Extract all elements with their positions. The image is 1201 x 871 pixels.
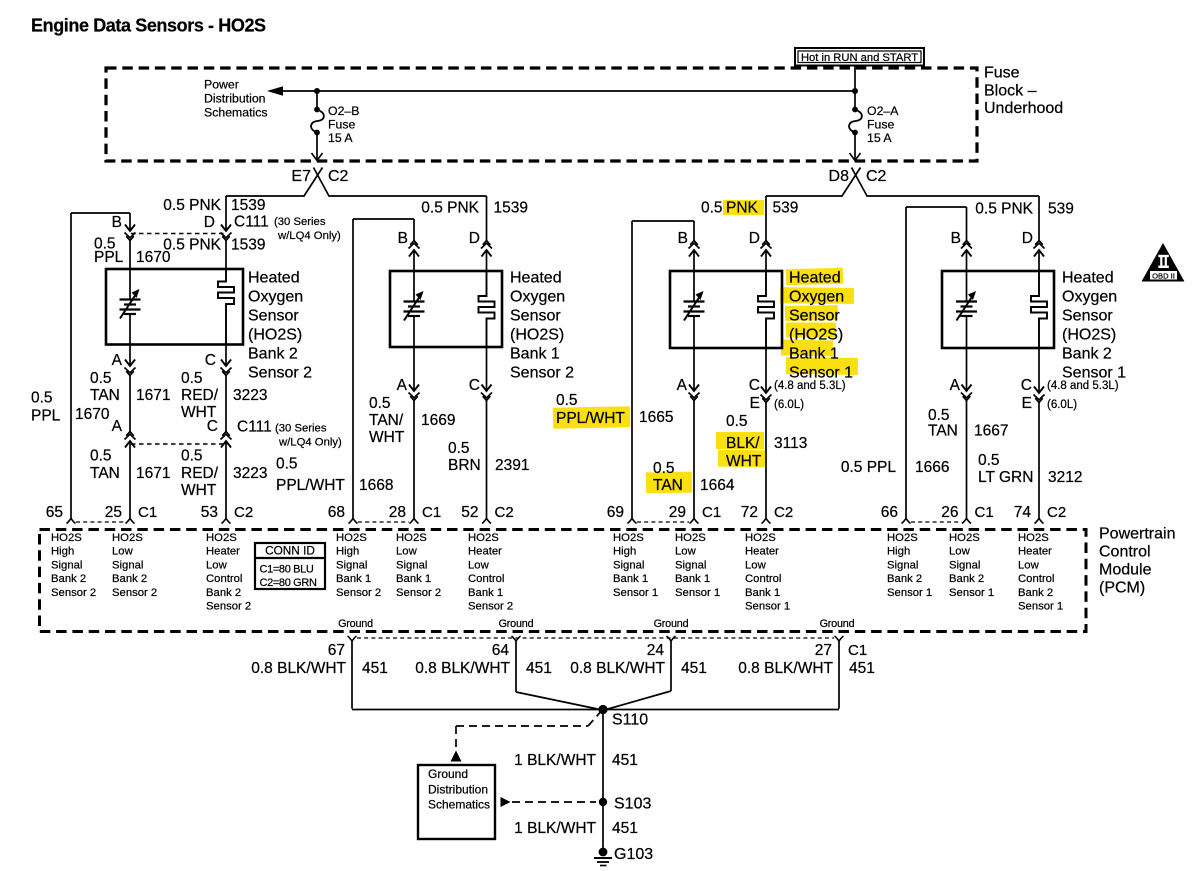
arrow to power distribution schematics xyxy=(267,86,283,96)
pin 72 bump xyxy=(762,519,771,524)
svg-text:72: 72 xyxy=(741,504,758,521)
sensor element B2S1 xyxy=(966,271,968,302)
svg-text:0.8 BLK/WHT: 0.8 BLK/WHT xyxy=(738,660,833,677)
connector terminal A B1S1 xyxy=(689,385,699,392)
svg-text:B: B xyxy=(678,230,688,247)
svg-text:0.5 PPL: 0.5 PPL xyxy=(841,459,897,476)
svg-text:C1=80 BLU: C1=80 BLU xyxy=(260,564,314,576)
svg-text:C1: C1 xyxy=(422,504,441,521)
svg-text:Sensor 1: Sensor 1 xyxy=(949,587,994,599)
connector D8 C2 crossover xyxy=(852,168,868,197)
svg-text:0.8 BLK/WHT: 0.8 BLK/WHT xyxy=(570,660,665,677)
svg-text:C: C xyxy=(207,418,218,435)
svg-text:B: B xyxy=(951,230,961,247)
ground G103 xyxy=(599,848,608,857)
svg-text:D: D xyxy=(204,214,215,231)
svg-text:HO2S: HO2S xyxy=(396,532,427,544)
HO2S Bank 1 Sensor 2 box xyxy=(390,271,502,347)
svg-text:PNK: PNK xyxy=(726,200,759,217)
heater element B2S2 xyxy=(218,269,234,344)
svg-text:w/LQ4 Only): w/LQ4 Only) xyxy=(278,437,342,449)
arrow right from ground distribution box xyxy=(501,797,511,807)
wire B2S2 pin65 riser xyxy=(70,213,72,519)
svg-text:A: A xyxy=(677,377,688,394)
svg-text:Ground: Ground xyxy=(820,618,855,630)
svg-text:0.5: 0.5 xyxy=(653,460,675,477)
svg-text:Fuse: Fuse xyxy=(984,65,1020,82)
wire B2S2 C upper xyxy=(225,344,227,366)
fuse O2-A 15A xyxy=(852,107,858,113)
svg-text:C2=80 GRN: C2=80 GRN xyxy=(260,577,317,589)
svg-text:OBD II: OBD II xyxy=(1152,271,1175,280)
ground pin 24 bump xyxy=(667,636,676,641)
svg-text:Signal: Signal xyxy=(887,559,918,571)
svg-text:Bank 2: Bank 2 xyxy=(887,573,922,585)
wire ground pin 67 drop xyxy=(351,641,353,709)
svg-text:Low: Low xyxy=(745,559,767,571)
wire S103 to G103 (1 BLK/WHT 451) xyxy=(602,802,604,853)
wire B2S1 A upper xyxy=(966,348,968,391)
svg-text:451: 451 xyxy=(526,660,552,677)
svg-text:S103: S103 xyxy=(614,796,651,813)
svg-text:0.8 BLK/WHT: 0.8 BLK/WHT xyxy=(415,660,510,677)
wire bus tap to fuse O2-B xyxy=(316,91,318,107)
wire B1S1 C upper xyxy=(765,348,767,393)
svg-text:(HO2S): (HO2S) xyxy=(1062,327,1116,344)
connector C1 ground dashed link xyxy=(357,637,834,639)
svg-text:Heated: Heated xyxy=(1062,270,1114,287)
wire B2S2 B loop top xyxy=(71,212,130,214)
svg-text:C2: C2 xyxy=(1047,504,1066,521)
svg-text:High: High xyxy=(887,546,910,558)
svg-text:0.5 PNK: 0.5 PNK xyxy=(421,200,479,217)
svg-text:Heater: Heater xyxy=(745,546,779,558)
splice S110 xyxy=(598,705,607,714)
svg-text:RED/: RED/ xyxy=(181,465,219,482)
svg-text:Control: Control xyxy=(1099,544,1151,561)
svg-text:Sensor 2: Sensor 2 xyxy=(51,587,96,599)
svg-text:74: 74 xyxy=(1014,504,1032,521)
svg-text:29: 29 xyxy=(669,504,686,521)
svg-text:(30 Series: (30 Series xyxy=(275,423,327,435)
connector C111 at D xyxy=(221,225,231,232)
svg-text:C111: C111 xyxy=(234,214,269,231)
svg-text:High: High xyxy=(336,546,359,558)
svg-text:C: C xyxy=(749,377,760,394)
svg-text:PPL: PPL xyxy=(94,249,124,266)
svg-text:Bank 1: Bank 1 xyxy=(468,587,503,599)
connector terminal C B2S2 xyxy=(221,360,231,367)
svg-text:1670: 1670 xyxy=(75,406,110,423)
svg-text:C2: C2 xyxy=(234,504,253,521)
svg-text:Heater: Heater xyxy=(468,546,502,558)
wire B1S2 B loop top xyxy=(353,218,414,220)
svg-text:0.5: 0.5 xyxy=(181,448,203,465)
svg-text:C1: C1 xyxy=(138,504,157,521)
svg-text:1668: 1668 xyxy=(359,477,393,494)
wire B2S1 D to sensor xyxy=(1038,250,1040,271)
svg-text:HO2S: HO2S xyxy=(51,532,82,544)
svg-text:Signal: Signal xyxy=(51,559,82,571)
connector terminal A B2S2 xyxy=(125,360,135,367)
wire B1S1 B drop xyxy=(693,221,695,241)
pin 66 bump xyxy=(902,519,911,524)
svg-text:Signal: Signal xyxy=(336,559,367,571)
wire B2S1 B drop xyxy=(966,207,968,241)
pin 68 bump xyxy=(349,519,358,524)
connector terminal B B1S1 xyxy=(689,250,699,257)
wire B1S2 A upper xyxy=(413,347,415,391)
svg-text:BLK/: BLK/ xyxy=(726,435,760,452)
svg-text:Control: Control xyxy=(1018,573,1054,585)
connector terminal D B1S2 xyxy=(482,250,492,257)
svg-text:Oxygen: Oxygen xyxy=(510,289,565,306)
svg-text:Bank 1: Bank 1 xyxy=(613,573,648,585)
junction fuse O2-A tap xyxy=(852,88,858,94)
connector C1 dashed link 353-414 xyxy=(358,521,409,523)
svg-text:(4.8 and 5.3L): (4.8 and 5.3L) xyxy=(774,380,846,392)
svg-text:Sensor 1: Sensor 1 xyxy=(745,601,790,613)
svg-text:Ground: Ground xyxy=(654,618,689,630)
svg-text:(HO2S): (HO2S) xyxy=(248,327,302,344)
sensor element B1S1 xyxy=(693,271,695,302)
svg-text:High: High xyxy=(613,546,636,558)
pin 53 bump xyxy=(222,519,231,524)
svg-text:Bank 2: Bank 2 xyxy=(112,573,147,585)
svg-text:WHT: WHT xyxy=(181,482,217,499)
svg-text:24: 24 xyxy=(647,642,665,659)
ground pin 27 bump xyxy=(835,636,844,641)
svg-text:3223: 3223 xyxy=(233,387,267,404)
connector terminal D B1S1 xyxy=(761,250,771,257)
connector terminal A B1S2 xyxy=(409,385,419,392)
wire ground pin 24 drop xyxy=(670,641,672,691)
svg-text:Control: Control xyxy=(745,573,781,585)
HO2S Bank 1 Sensor 1 box xyxy=(670,271,782,348)
svg-text:Heater: Heater xyxy=(1018,546,1052,558)
svg-text:0.5: 0.5 xyxy=(369,395,391,412)
svg-text:(PCM): (PCM) xyxy=(1099,580,1145,597)
svg-text:RED/: RED/ xyxy=(181,387,219,404)
svg-text:Heater: Heater xyxy=(206,546,240,558)
svg-text:O2–B: O2–B xyxy=(328,104,359,118)
svg-text:Heated: Heated xyxy=(789,270,841,287)
svg-text:539: 539 xyxy=(773,200,799,217)
svg-text:1539: 1539 xyxy=(494,200,528,217)
wire B1S1 D to sensor xyxy=(765,250,767,271)
wire B2S2 B drop xyxy=(129,213,131,231)
svg-text:C1: C1 xyxy=(975,504,994,521)
wire rail D8 right (0.5 PNK 539) xyxy=(866,195,1039,197)
svg-text:0.5: 0.5 xyxy=(31,390,53,407)
svg-text:C: C xyxy=(1021,377,1032,394)
svg-text:C: C xyxy=(205,352,216,369)
svg-text:68: 68 xyxy=(328,504,345,521)
svg-text:(HO2S): (HO2S) xyxy=(789,327,843,344)
wire B1S2 C upper xyxy=(486,347,488,391)
PCM box xyxy=(40,530,1087,632)
sensor element B2S2 xyxy=(129,269,131,300)
svg-text:0.5: 0.5 xyxy=(978,452,1000,469)
svg-text:TAN/: TAN/ xyxy=(369,412,404,429)
svg-text:LT GRN: LT GRN xyxy=(978,469,1033,486)
connector C111 dashed line upper xyxy=(131,233,225,235)
svg-text:15 A: 15 A xyxy=(328,131,353,145)
svg-text:E: E xyxy=(1022,395,1032,412)
svg-text:w/LQ4 Only): w/LQ4 Only) xyxy=(277,230,341,242)
ground pin 64 bump xyxy=(512,636,521,641)
svg-text:Sensor 2: Sensor 2 xyxy=(248,365,312,382)
svg-text:1664: 1664 xyxy=(700,477,735,494)
svg-text:2391: 2391 xyxy=(495,457,529,474)
svg-text:Engine Data Sensors - HO2S: Engine Data Sensors - HO2S xyxy=(31,16,266,36)
svg-text:Low: Low xyxy=(206,559,228,571)
svg-text:Sensor 2: Sensor 2 xyxy=(336,587,381,599)
svg-text:Oxygen: Oxygen xyxy=(789,289,844,306)
svg-text:0.5: 0.5 xyxy=(701,200,723,217)
svg-text:O2–A: O2–A xyxy=(867,104,899,118)
svg-text:Ground: Ground xyxy=(428,767,468,781)
connector E7 C2 crossover xyxy=(314,168,330,197)
connector C111 at B xyxy=(125,225,135,232)
svg-text:69: 69 xyxy=(607,504,624,521)
svg-text:HO2S: HO2S xyxy=(112,532,143,544)
svg-text:D8: D8 xyxy=(829,168,850,185)
wire B1S1 D drop xyxy=(765,196,767,241)
svg-text:WHT: WHT xyxy=(726,453,762,470)
svg-text:B: B xyxy=(398,230,408,247)
wire ground pin 64 drop xyxy=(515,641,517,692)
connector terminal B B1S2 xyxy=(409,250,419,257)
svg-text:Signal: Signal xyxy=(675,559,706,571)
svg-text:S110: S110 xyxy=(612,712,648,729)
svg-text:A: A xyxy=(397,377,408,394)
pin 74 bump xyxy=(1035,519,1044,524)
svg-text:E: E xyxy=(750,395,760,412)
fuse block underhood box xyxy=(106,68,977,161)
svg-text:52: 52 xyxy=(461,504,478,521)
pin 52 bump xyxy=(482,519,491,524)
connector terminal B B2S1 xyxy=(962,250,972,257)
connector C1 dashed link 906-966.5 xyxy=(911,521,962,523)
svg-text:PPL/WHT: PPL/WHT xyxy=(556,410,625,427)
connector terminal A B2S1 xyxy=(962,385,972,392)
svg-text:C2: C2 xyxy=(774,504,793,521)
svg-text:Heated: Heated xyxy=(248,270,300,287)
svg-text:66: 66 xyxy=(881,504,898,521)
svg-text:Oxygen: Oxygen xyxy=(1062,289,1117,306)
svg-text:Module: Module xyxy=(1099,562,1152,579)
svg-text:0.5 PNK: 0.5 PNK xyxy=(163,197,221,214)
connector C111 lower at A xyxy=(125,441,135,448)
svg-text:High: High xyxy=(51,546,74,558)
svg-text:0.5: 0.5 xyxy=(276,456,298,473)
pin 69 bump xyxy=(628,519,637,524)
svg-text:Low: Low xyxy=(112,546,134,558)
ground distribution schematics box xyxy=(418,765,495,839)
svg-text:Underhood: Underhood xyxy=(984,100,1063,117)
svg-text:HO2S: HO2S xyxy=(949,532,980,544)
svg-text:Bank 2: Bank 2 xyxy=(206,587,241,599)
svg-text:Distribution: Distribution xyxy=(428,783,488,797)
svg-text:D: D xyxy=(749,230,760,247)
wire rail E7 left (0.5 PNK 1539) xyxy=(226,195,305,197)
wire B1S2 pin68 riser xyxy=(352,219,354,519)
svg-text:0.5: 0.5 xyxy=(448,440,470,457)
svg-text:(HO2S): (HO2S) xyxy=(510,327,564,344)
wire B1S1 A upper xyxy=(693,348,695,391)
wire rail E7 right (0.5 PNK 1539) xyxy=(328,195,486,197)
svg-text:Sensor 2: Sensor 2 xyxy=(112,587,157,599)
wire B2S1 C upper xyxy=(1038,348,1040,393)
svg-text:Sensor: Sensor xyxy=(510,308,561,325)
svg-text:Fuse: Fuse xyxy=(867,118,894,132)
svg-text:1670: 1670 xyxy=(136,249,171,266)
svg-text:Sensor 2: Sensor 2 xyxy=(206,601,251,613)
heater element B1S1 xyxy=(758,271,774,348)
connector C111 dashed line lower xyxy=(131,443,225,445)
svg-text:Bank 1: Bank 1 xyxy=(336,573,371,585)
svg-text:Powertrain: Powertrain xyxy=(1099,526,1175,543)
svg-text:0.5 PNK: 0.5 PNK xyxy=(975,201,1033,218)
svg-text:1 BLK/WHT: 1 BLK/WHT xyxy=(514,820,596,837)
svg-text:Low: Low xyxy=(675,546,697,558)
svg-text:HO2S: HO2S xyxy=(613,532,644,544)
svg-text:Sensor 1: Sensor 1 xyxy=(675,587,720,599)
svg-text:HO2S: HO2S xyxy=(468,532,499,544)
wire fuse O2-B output xyxy=(316,134,318,160)
svg-text:Signal: Signal xyxy=(613,559,644,571)
wire B2S1 pin66 riser xyxy=(905,207,907,519)
svg-text:Sensor 2: Sensor 2 xyxy=(396,587,441,599)
svg-text:Sensor 2: Sensor 2 xyxy=(468,601,513,613)
svg-text:Sensor 1: Sensor 1 xyxy=(789,365,853,382)
heater element B1S2 xyxy=(479,271,495,347)
svg-text:Hot in RUN and START: Hot in RUN and START xyxy=(801,52,918,64)
wire B2S1 A to PCM pin 26 xyxy=(966,401,968,519)
wire power bus xyxy=(281,90,855,92)
wire B1S2 C to PCM pin 52 xyxy=(486,401,488,519)
svg-text:0.5: 0.5 xyxy=(90,370,112,387)
dashed reference wire S110 xyxy=(456,725,588,727)
wire B1S1 B loop top xyxy=(632,220,694,222)
svg-text:1539: 1539 xyxy=(231,237,265,254)
connector C111 lower at C xyxy=(221,441,231,448)
svg-text:Bank 2: Bank 2 xyxy=(248,346,298,363)
svg-text:451: 451 xyxy=(681,660,707,677)
svg-text:PPL/WHT: PPL/WHT xyxy=(276,477,345,494)
svg-text:Sensor: Sensor xyxy=(248,308,299,325)
svg-text:TAN: TAN xyxy=(653,477,683,494)
svg-text:1666: 1666 xyxy=(915,459,949,476)
svg-text:3212: 3212 xyxy=(1048,469,1082,486)
svg-text:C1: C1 xyxy=(702,504,721,521)
wire ground trunk xyxy=(352,709,839,711)
svg-text:Sensor: Sensor xyxy=(789,308,840,325)
svg-text:1671: 1671 xyxy=(136,465,170,482)
svg-text:53: 53 xyxy=(201,504,218,521)
svg-text:Power: Power xyxy=(204,78,239,92)
wire B1S2 A to PCM pin 28 xyxy=(413,401,415,519)
svg-text:28: 28 xyxy=(389,504,406,521)
pin 65 bump xyxy=(67,519,76,524)
wire B2S2 B to sensor xyxy=(129,241,131,270)
svg-text:BRN: BRN xyxy=(448,457,481,474)
svg-text:Bank 1: Bank 1 xyxy=(789,346,839,363)
svg-text:G103: G103 xyxy=(614,846,653,863)
splice S103 xyxy=(599,798,607,806)
svg-text:451: 451 xyxy=(849,660,875,677)
svg-text:HO2S: HO2S xyxy=(675,532,706,544)
svg-text:1667: 1667 xyxy=(974,423,1008,440)
connector C1 dashed link 632-694 xyxy=(637,521,689,523)
connector terminal C and E B1S1 xyxy=(761,387,771,394)
HO2S Bank 2 Sensor 1 box xyxy=(942,271,1054,348)
wire B2S2 C mid xyxy=(225,376,227,433)
svg-text:451: 451 xyxy=(612,820,638,837)
svg-text:Low: Low xyxy=(468,559,490,571)
svg-text:CONN ID: CONN ID xyxy=(265,544,315,558)
svg-text:HO2S: HO2S xyxy=(206,532,237,544)
svg-text:HO2S: HO2S xyxy=(887,532,918,544)
svg-text:Ground: Ground xyxy=(338,618,373,630)
svg-text:Control: Control xyxy=(468,573,504,585)
svg-text:Bank 2: Bank 2 xyxy=(949,573,984,585)
svg-text:Heated: Heated xyxy=(510,270,562,287)
wire B2S2 A to PCM pin 25 xyxy=(129,441,131,519)
svg-text:Ground: Ground xyxy=(499,618,534,630)
svg-text:Bank 1: Bank 1 xyxy=(396,573,431,585)
svg-text:25: 25 xyxy=(105,504,122,521)
svg-text:Fuse: Fuse xyxy=(328,118,355,132)
wire B2S2 C to PCM pin 53 xyxy=(225,441,227,519)
svg-text:TAN: TAN xyxy=(928,423,958,440)
dashed reference wire S103 xyxy=(512,801,596,803)
hot in RUN and START box xyxy=(795,48,924,66)
svg-text:0.5: 0.5 xyxy=(556,392,578,409)
svg-text:Low: Low xyxy=(949,546,971,558)
wire B1S1 B to sensor xyxy=(693,250,695,271)
svg-text:3223: 3223 xyxy=(233,465,267,482)
wire hot feed to O2-A fuse xyxy=(854,66,856,108)
svg-text:Schematics: Schematics xyxy=(204,106,268,120)
wire B1S2 D drop xyxy=(486,196,488,241)
svg-text:1539: 1539 xyxy=(231,197,265,214)
svg-text:(4.8 and 5.3L): (4.8 and 5.3L) xyxy=(1047,380,1119,392)
svg-text:TAN: TAN xyxy=(90,387,120,404)
svg-text:Bank 1: Bank 1 xyxy=(675,573,710,585)
svg-text:Signal: Signal xyxy=(396,559,427,571)
wire B1S1 A to PCM pin 29 xyxy=(693,401,695,519)
wire B1S1 pin69 riser xyxy=(631,221,633,519)
arrow up to dashed reference xyxy=(451,751,462,762)
wire B2S1 D drop xyxy=(1038,196,1040,241)
CONN ID box xyxy=(255,543,325,589)
svg-text:1671: 1671 xyxy=(136,387,170,404)
sensor element B1S2 xyxy=(413,271,415,302)
OBD II symbol xyxy=(1142,243,1185,282)
svg-text:C2: C2 xyxy=(495,504,514,521)
svg-text:Bank 2: Bank 2 xyxy=(51,573,86,585)
svg-text:1 BLK/WHT: 1 BLK/WHT xyxy=(514,752,596,769)
svg-text:WHT: WHT xyxy=(369,429,405,446)
junction fuse O2-B tap xyxy=(314,88,320,94)
svg-text:Signal: Signal xyxy=(949,559,980,571)
wire B2S2 A mid xyxy=(129,376,131,433)
svg-text:Sensor: Sensor xyxy=(1062,308,1113,325)
connector terminal C and E B2S1 xyxy=(1034,387,1044,394)
svg-text:0.8 BLK/WHT: 0.8 BLK/WHT xyxy=(251,660,346,677)
